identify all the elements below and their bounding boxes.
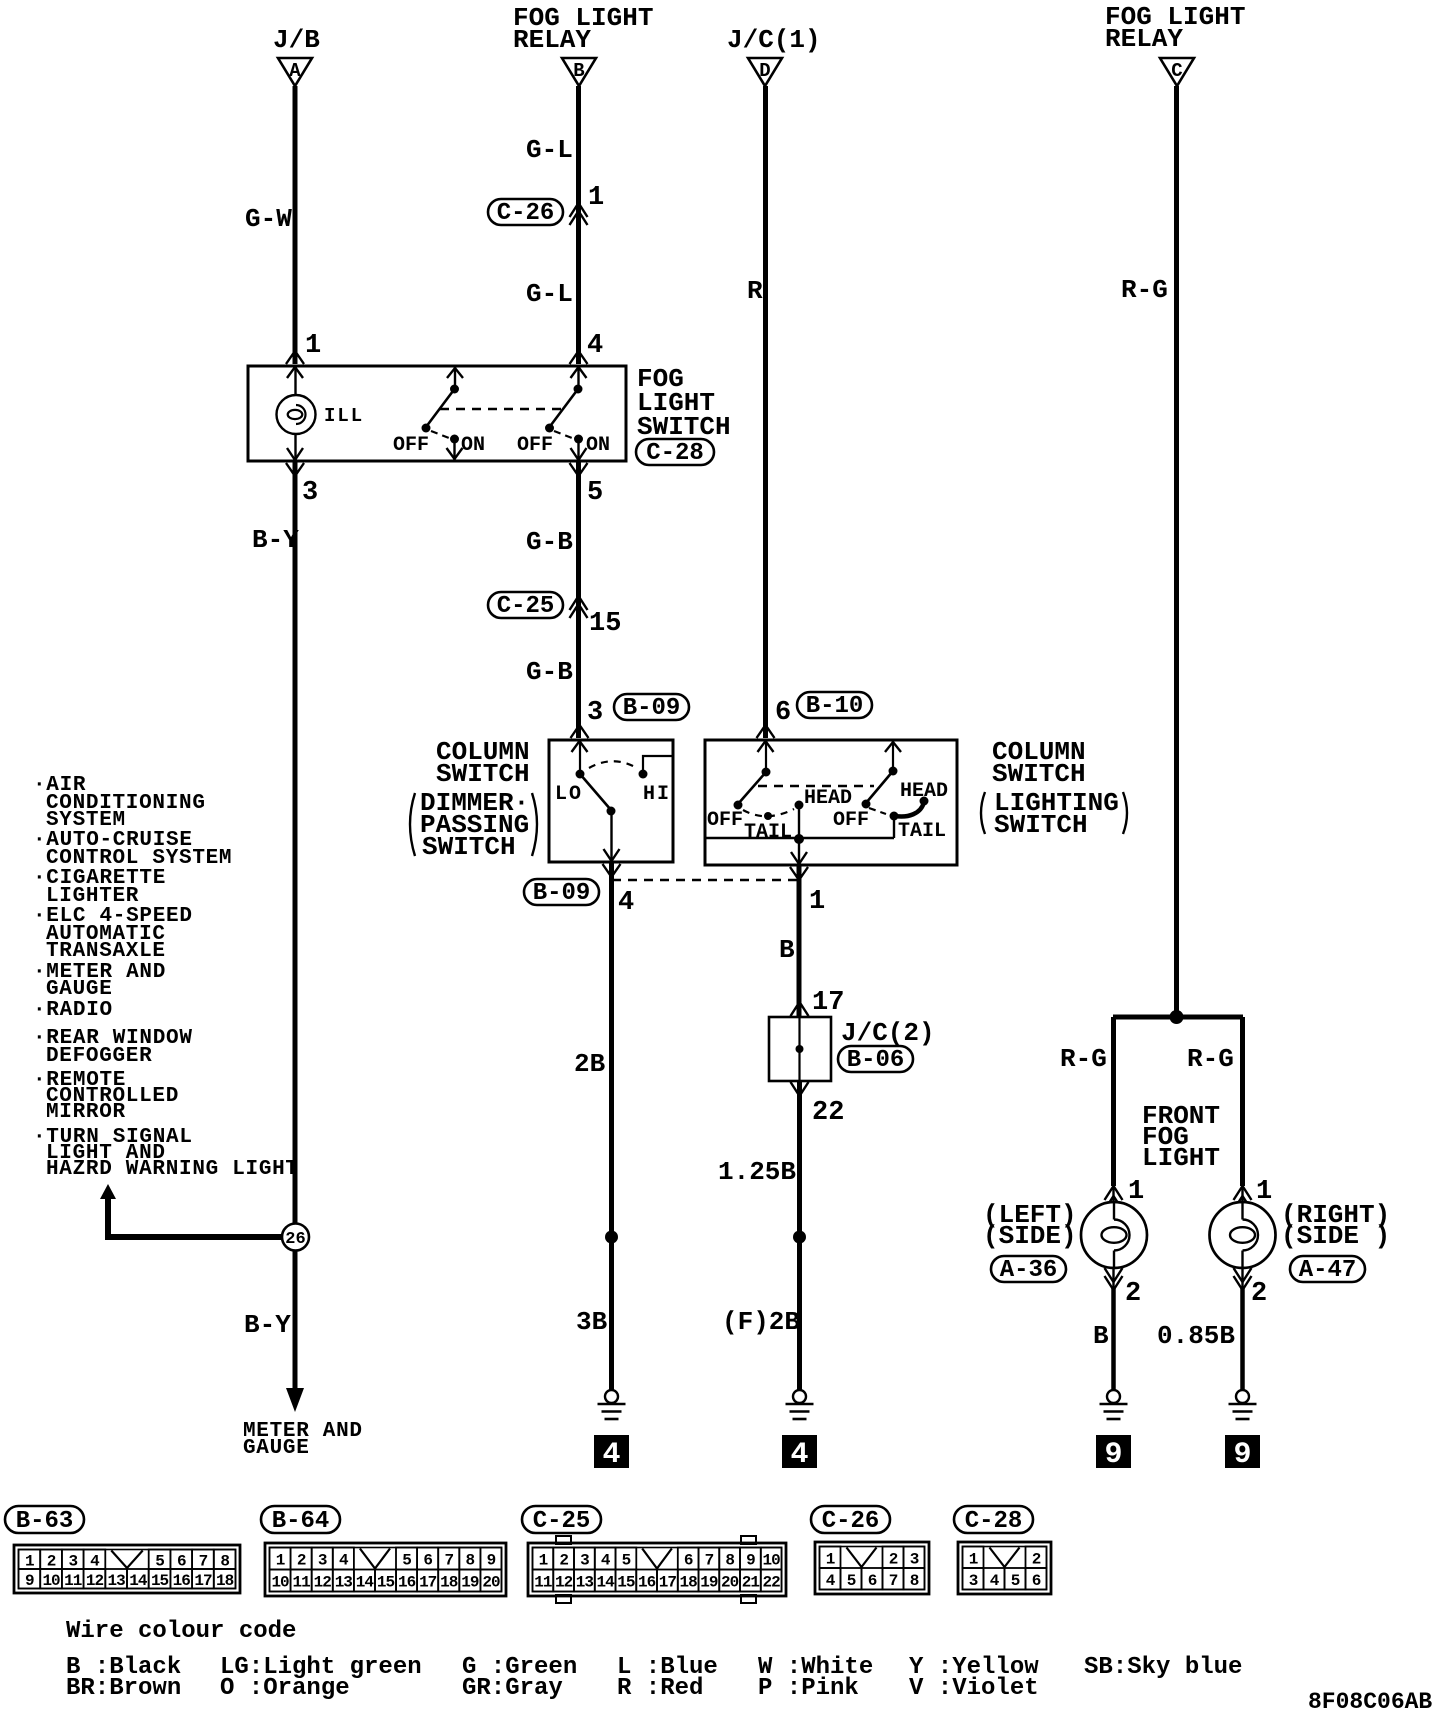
svg-text:6: 6 xyxy=(868,1572,877,1590)
wire B: relay feed down to fog light switch pin 4 xyxy=(576,86,581,364)
connector view C-25 xyxy=(522,1506,601,1533)
svg-text:8: 8 xyxy=(910,1572,919,1590)
svg-text:10: 10 xyxy=(271,1574,289,1592)
svg-text:4: 4 xyxy=(601,1552,611,1570)
svg-text:B: B xyxy=(1093,1321,1109,1351)
svg-text:13: 13 xyxy=(335,1574,353,1592)
svg-text:5: 5 xyxy=(402,1552,411,1570)
svg-text:C: C xyxy=(1171,60,1182,82)
lighting TAIL dot (pole 2) xyxy=(890,812,899,821)
svg-text:B: B xyxy=(779,935,795,965)
svg-text:Wire colour code: Wire colour code xyxy=(66,1618,296,1645)
svg-text:B: B xyxy=(573,60,584,82)
svg-text:2: 2 xyxy=(297,1552,306,1570)
svg-text:15: 15 xyxy=(589,609,621,639)
wire A: B-Y from switch pin 3 to junction 26 xyxy=(293,461,298,1392)
column switch lighting box xyxy=(705,740,957,865)
pin 1 chevrons (left fog light) xyxy=(1105,1186,1123,1200)
lighting pole 2 pivot dot xyxy=(889,767,898,776)
ILL lamp wire inside switch (pin1 to pin3) xyxy=(294,366,296,405)
svg-text:HEAD: HEAD xyxy=(804,787,852,810)
connector chevrons at dimmer switch pin 4 xyxy=(604,849,620,861)
fog switch pole 1 ON stub to box bottom xyxy=(453,439,455,460)
svg-text:4: 4 xyxy=(826,1572,836,1590)
svg-text:OFF: OFF xyxy=(517,434,553,457)
svg-text:14: 14 xyxy=(129,1572,148,1590)
svg-text:9: 9 xyxy=(487,1552,496,1570)
lighting HEAD contact dot (pole 1) xyxy=(795,801,804,810)
dimmer dashed travel arc xyxy=(589,761,635,768)
svg-text:9: 9 xyxy=(1104,1438,1122,1472)
svg-text:B-06: B-06 xyxy=(847,1047,905,1074)
svg-text:(F)2B: (F)2B xyxy=(722,1307,800,1337)
ground reference square 9 (right) xyxy=(1225,1435,1260,1468)
svg-text:8: 8 xyxy=(220,1552,229,1570)
svg-text:(SIDE): (SIDE) xyxy=(983,1221,1077,1251)
connector chevrons at lighting switch pin 1 xyxy=(791,852,807,864)
connector view C-28 xyxy=(954,1506,1033,1533)
svg-text:11: 11 xyxy=(64,1572,82,1590)
wire B: G-B from switch pin 5 to column switch xyxy=(576,461,581,738)
svg-text:OFF: OFF xyxy=(833,809,869,832)
svg-text:BR:Brown: BR:Brown xyxy=(66,1675,181,1702)
fog switch pole 2 OFF contact dot xyxy=(545,424,554,433)
fog switch pole 1 (illumination) stub xyxy=(454,366,456,387)
splice dot on 2B wire xyxy=(605,1231,618,1244)
svg-text:C-25: C-25 xyxy=(533,1508,591,1535)
svg-text:·RADIO: ·RADIO xyxy=(33,999,113,1022)
left fog light drop wire xyxy=(1111,1017,1116,1186)
connector view C-26 xyxy=(811,1506,890,1533)
splice dot on 1.25B wire xyxy=(793,1231,806,1244)
lighting pole 2 HEAD-TAIL bold arc xyxy=(895,802,924,816)
svg-text:16: 16 xyxy=(638,1574,656,1592)
fog light feed horizontal wire xyxy=(1113,1015,1243,1020)
svg-text:11: 11 xyxy=(534,1574,552,1592)
svg-text:1: 1 xyxy=(826,1550,835,1568)
svg-text:6: 6 xyxy=(423,1552,432,1570)
svg-text:2: 2 xyxy=(889,1550,898,1568)
svg-text:18: 18 xyxy=(216,1572,234,1590)
svg-text:16: 16 xyxy=(173,1572,191,1590)
branch stub wire xyxy=(105,1197,111,1234)
svg-text:A: A xyxy=(289,60,301,82)
ground symbol (left fog light) xyxy=(1107,1390,1120,1403)
svg-text:3: 3 xyxy=(587,698,603,728)
fog switch pole 2 ON contact dot xyxy=(574,435,583,444)
left fog lamp lower thin lead xyxy=(1112,1268,1114,1290)
lighting inner bus xyxy=(705,837,894,839)
fog switch pole 1 arm xyxy=(426,389,455,427)
svg-text:C-26: C-26 xyxy=(497,200,555,227)
lighting HEAD dot (pole 2) xyxy=(920,797,929,806)
svg-text:2B: 2B xyxy=(574,1049,606,1079)
svg-text:19: 19 xyxy=(700,1574,718,1592)
svg-text:OFF: OFF xyxy=(707,809,743,832)
svg-text:4: 4 xyxy=(90,1552,100,1570)
fog switch pole 1 dashed travel xyxy=(431,431,449,438)
svg-text:J/B: J/B xyxy=(273,25,320,55)
svg-text:26: 26 xyxy=(285,1230,305,1249)
ground symbol (lighting circuit) xyxy=(793,1390,806,1403)
svg-text:1: 1 xyxy=(539,1552,548,1570)
svg-text:20: 20 xyxy=(721,1574,739,1592)
svg-text:21: 21 xyxy=(742,1574,760,1592)
svg-text:HAZRD WARNING LIGHT: HAZRD WARNING LIGHT xyxy=(46,1158,299,1181)
svg-text:14: 14 xyxy=(356,1574,375,1592)
svg-text:12: 12 xyxy=(86,1572,104,1590)
svg-text:C-28: C-28 xyxy=(646,440,704,467)
svg-text:G-W: G-W xyxy=(245,204,292,234)
connector view B-64 xyxy=(261,1506,340,1533)
wire D: J/C(1) feed down to lighting switch pin 6 xyxy=(763,86,768,738)
connector triangle C xyxy=(1160,58,1194,86)
svg-text:11: 11 xyxy=(293,1574,311,1592)
svg-text:R-G: R-G xyxy=(1121,275,1168,305)
lighting pole 1 arm end dot xyxy=(734,801,743,810)
connector view B-63 xyxy=(5,1506,84,1533)
left front fog light lamp A-36 xyxy=(1081,1202,1147,1268)
svg-text:4: 4 xyxy=(602,1438,620,1472)
svg-text:GAUGE: GAUGE xyxy=(243,1437,310,1460)
svg-text:D: D xyxy=(759,60,770,82)
svg-text:5: 5 xyxy=(1011,1572,1020,1590)
svg-text:10: 10 xyxy=(42,1572,60,1590)
svg-text:1: 1 xyxy=(809,887,825,917)
svg-text:3B: 3B xyxy=(576,1307,608,1337)
J/C(2) internal wire xyxy=(798,1017,800,1081)
pin 1 chevrons (right fog light) xyxy=(1234,1186,1252,1200)
svg-text:P :Pink: P :Pink xyxy=(758,1675,859,1702)
connector chevrons at dimmer switch pin 3 xyxy=(571,725,589,738)
svg-text:ILL: ILL xyxy=(324,405,364,427)
capsule B-09 (dimmer switch connector, bottom) xyxy=(524,879,599,905)
svg-text:9: 9 xyxy=(746,1552,755,1570)
svg-text:R: R xyxy=(747,276,763,306)
left fog light ground wire xyxy=(1111,1288,1116,1390)
J/C(2) internal junction dot xyxy=(796,1045,804,1053)
svg-text:LO: LO xyxy=(555,783,583,806)
svg-text:HEAD: HEAD xyxy=(900,780,948,803)
pin 2 chevrons (left fog light) xyxy=(1105,1268,1123,1282)
junction block J/C(2) box xyxy=(769,1017,831,1081)
svg-text:4: 4 xyxy=(790,1438,808,1472)
svg-text:J/C(1): J/C(1) xyxy=(727,25,821,55)
dimmer HI contact lead xyxy=(643,756,672,770)
svg-text:G-L: G-L xyxy=(526,279,573,309)
svg-text:V :Violet: V :Violet xyxy=(909,1675,1039,1702)
svg-text:GR:Gray: GR:Gray xyxy=(462,1675,563,1702)
connector chevrons at fog light switch pin 5 xyxy=(571,448,587,460)
connector triangle A xyxy=(278,58,312,86)
lighting pole 1 dashed travel arc xyxy=(743,809,794,816)
ground symbol (right fog light) xyxy=(1236,1390,1249,1403)
svg-text:9: 9 xyxy=(25,1572,34,1590)
svg-text:1: 1 xyxy=(1128,1177,1144,1207)
svg-text:22: 22 xyxy=(763,1574,781,1592)
capsule B-06 (junction connector) xyxy=(838,1046,913,1072)
dimmer input stub xyxy=(579,740,581,770)
fog switch pole 2 dashed travel xyxy=(554,431,572,438)
lighting pole 1 input stub xyxy=(765,740,767,768)
svg-text:3: 3 xyxy=(580,1552,589,1570)
lighting pole 2 arm xyxy=(866,771,893,803)
svg-text:5: 5 xyxy=(587,478,603,508)
svg-text:15: 15 xyxy=(377,1574,395,1592)
svg-text:2: 2 xyxy=(1125,1279,1141,1309)
svg-text:B-63: B-63 xyxy=(16,1508,74,1535)
ground reference square 9 (left) xyxy=(1096,1435,1131,1468)
ground reference square 4 (left) xyxy=(594,1435,629,1468)
svg-text:1: 1 xyxy=(305,331,321,361)
svg-text:5: 5 xyxy=(847,1572,856,1590)
svg-text:B-09: B-09 xyxy=(533,880,591,907)
lighting output junction dot xyxy=(794,834,804,844)
svg-text:1: 1 xyxy=(588,183,604,213)
svg-text:16: 16 xyxy=(398,1574,416,1592)
svg-text:19: 19 xyxy=(461,1574,479,1592)
fog switch pole 1 pivot dot xyxy=(450,385,459,394)
svg-text:22: 22 xyxy=(812,1098,844,1128)
svg-text:14: 14 xyxy=(597,1574,616,1592)
svg-text:7: 7 xyxy=(199,1552,208,1570)
connector chevrons at fog light switch pin 4 xyxy=(570,351,588,364)
svg-text:2: 2 xyxy=(1032,1550,1041,1568)
arrowhead to METER AND GAUGE xyxy=(286,1388,304,1412)
svg-text:RELAY: RELAY xyxy=(1105,24,1183,54)
svg-text:4: 4 xyxy=(618,888,634,918)
fog switch pole 2 pivot dot xyxy=(574,385,583,394)
lighting output stub xyxy=(798,839,800,865)
svg-text:C-28: C-28 xyxy=(965,1508,1023,1535)
svg-text:4: 4 xyxy=(587,331,603,361)
ganged dashed link between column switch outputs xyxy=(612,879,799,881)
svg-text:TAIL: TAIL xyxy=(898,820,946,843)
svg-text:3: 3 xyxy=(910,1550,919,1568)
lighting pole 1 pivot dot xyxy=(762,768,771,777)
svg-text:SWITCH: SWITCH xyxy=(992,759,1086,789)
lighting pole 1 arm xyxy=(738,772,766,804)
svg-text:A-36: A-36 xyxy=(1000,1257,1058,1284)
connector chevrons at fog light switch pin 1 xyxy=(286,351,304,364)
wire A: J/B feed down to fog light switch pin 1 xyxy=(293,86,298,364)
svg-text:7: 7 xyxy=(444,1552,453,1570)
fog switch pole 1 ON contact dot xyxy=(450,435,459,444)
lighting pole 2 input stub xyxy=(892,740,894,767)
connector chevron at J/C(2) pin 22 xyxy=(791,1082,809,1096)
capsule C-26 (harness connector) xyxy=(488,199,563,225)
svg-text:R-G: R-G xyxy=(1187,1044,1234,1074)
dimmer output stub xyxy=(610,811,612,862)
svg-text:18: 18 xyxy=(440,1574,458,1592)
right fog light ground wire xyxy=(1240,1288,1245,1390)
svg-text:6: 6 xyxy=(684,1552,693,1570)
dimmer LO contact dot xyxy=(576,770,585,779)
lighting HEAD contact lead xyxy=(798,805,800,838)
right fog light drop wire xyxy=(1240,1017,1245,1186)
connector triangle B xyxy=(562,58,596,86)
lighting pole 2 dashed travel xyxy=(869,808,886,814)
svg-text:SWITCH: SWITCH xyxy=(436,759,530,789)
fog switch pole 1 OFF contact dot xyxy=(422,424,431,433)
svg-text:ON: ON xyxy=(461,434,485,457)
wire 2B: dimmer output to ground xyxy=(609,862,614,1390)
svg-text:ON: ON xyxy=(586,434,610,457)
svg-text:2: 2 xyxy=(47,1552,56,1570)
column switch dimmer box xyxy=(549,740,673,862)
svg-text:7: 7 xyxy=(705,1552,714,1570)
svg-text:HI: HI xyxy=(643,783,671,806)
right fog lamp lower thin lead xyxy=(1241,1268,1243,1290)
connector chevron at J/C(2) pin 17 xyxy=(791,1002,809,1016)
svg-text:GAUGE: GAUGE xyxy=(46,978,113,1001)
fog switch pole 2 arm xyxy=(550,389,579,427)
svg-text:4: 4 xyxy=(339,1552,349,1570)
wire C: relay feed down to fog lights xyxy=(1174,86,1179,1017)
lighting TAIL lead down xyxy=(893,816,895,838)
svg-text:1: 1 xyxy=(1256,1177,1272,1207)
junction 26 circle xyxy=(282,1224,309,1251)
ganged switch dashed link xyxy=(440,408,562,410)
capsule C-28 (switch connector) xyxy=(636,439,714,465)
svg-text:C-25: C-25 xyxy=(497,593,555,620)
connector triangle D xyxy=(748,58,782,86)
branch arrow to system list xyxy=(100,1184,116,1199)
svg-text:20: 20 xyxy=(482,1574,500,1592)
svg-text:17: 17 xyxy=(812,988,844,1018)
svg-text:SB:Sky blue: SB:Sky blue xyxy=(1084,1654,1242,1681)
pin 2 chevrons (right fog light) xyxy=(1234,1268,1252,1282)
svg-text:17: 17 xyxy=(659,1574,677,1592)
svg-text:8F08C06AB: 8F08C06AB xyxy=(1308,1689,1432,1715)
svg-text:6: 6 xyxy=(775,698,791,728)
svg-text:G-B: G-B xyxy=(526,657,573,687)
svg-text:10: 10 xyxy=(763,1552,781,1570)
svg-text:G-B: G-B xyxy=(526,527,573,557)
capsule A-36 xyxy=(991,1256,1066,1282)
svg-text:B-Y: B-Y xyxy=(244,1310,291,1340)
wire 1.25B: J/C(2) to ground xyxy=(797,1081,802,1390)
fog switch pole 2 ON stub xyxy=(577,439,579,461)
svg-text:12: 12 xyxy=(314,1574,332,1592)
ILL illumination lamp xyxy=(277,395,316,434)
connector C-26 crossing chevrons xyxy=(570,203,588,217)
svg-text:7: 7 xyxy=(889,1572,898,1590)
svg-text:15: 15 xyxy=(151,1572,169,1590)
svg-text:9: 9 xyxy=(1233,1438,1251,1472)
svg-text:B-64: B-64 xyxy=(272,1508,330,1535)
capsule A-47 xyxy=(1290,1256,1365,1282)
svg-text:TRANSAXLE: TRANSAXLE xyxy=(46,940,166,963)
svg-text:17: 17 xyxy=(419,1574,437,1592)
dimmer switch arm xyxy=(580,774,611,810)
lighting pole 2 arm end dot xyxy=(862,800,871,809)
connector chevrons at lighting switch pin 6 xyxy=(757,725,775,738)
branch bus wire to junction 26 xyxy=(105,1234,284,1240)
svg-text:3: 3 xyxy=(68,1552,77,1570)
capsule B-10 (lighting switch connector) xyxy=(797,692,872,718)
svg-text:R :Red: R :Red xyxy=(617,1675,703,1702)
svg-text:1.25B: 1.25B xyxy=(718,1157,796,1187)
capsule B-09 (dimmer switch connector, top) xyxy=(614,694,689,720)
svg-text:TAIL: TAIL xyxy=(744,821,792,844)
svg-text:1: 1 xyxy=(25,1552,34,1570)
connector C-25 crossing chevrons xyxy=(570,596,588,610)
svg-text:1: 1 xyxy=(969,1550,978,1568)
svg-text:8: 8 xyxy=(466,1552,475,1570)
dimmer arm output dot xyxy=(607,807,616,816)
svg-text:LIGHT: LIGHT xyxy=(1142,1143,1220,1173)
svg-text:1: 1 xyxy=(276,1552,285,1570)
svg-text:12: 12 xyxy=(555,1574,573,1592)
svg-text:13: 13 xyxy=(108,1572,126,1590)
ground symbol (dimmer circuit) xyxy=(605,1390,618,1403)
svg-text:SWITCH: SWITCH xyxy=(422,832,516,862)
svg-text:SWITCH: SWITCH xyxy=(637,412,731,442)
lighting TAIL contact dot (pole 1) xyxy=(764,812,772,820)
svg-text:6: 6 xyxy=(177,1552,186,1570)
svg-text:MIRROR: MIRROR xyxy=(46,1101,126,1124)
svg-text:B-Y: B-Y xyxy=(252,525,299,555)
wire B(black): lighting output to J/C(2) xyxy=(797,865,802,1017)
svg-text:6: 6 xyxy=(1032,1572,1041,1590)
svg-text:4: 4 xyxy=(990,1572,1000,1590)
svg-text:RELAY: RELAY xyxy=(513,25,591,55)
svg-text:(SIDE ): (SIDE ) xyxy=(1281,1221,1390,1251)
svg-text:3: 3 xyxy=(969,1572,978,1590)
connector chevrons at fog light switch pin 3 xyxy=(287,448,303,460)
svg-text:13: 13 xyxy=(576,1574,594,1592)
svg-text:0.85B: 0.85B xyxy=(1157,1321,1235,1351)
fog light switch box C-28 xyxy=(248,366,626,461)
svg-text:O :Orange: O :Orange xyxy=(220,1675,350,1702)
svg-text:3: 3 xyxy=(318,1552,327,1570)
svg-text:A-47: A-47 xyxy=(1299,1257,1357,1284)
dimmer HI contact dot xyxy=(639,770,648,779)
svg-text:B-09: B-09 xyxy=(623,695,681,722)
fog switch pole 2 stub xyxy=(577,366,579,387)
svg-text:5: 5 xyxy=(155,1552,164,1570)
svg-text:R-G: R-G xyxy=(1060,1044,1107,1074)
ground reference square 4 (right) xyxy=(782,1435,817,1468)
svg-text:G-L: G-L xyxy=(526,135,573,165)
svg-text:OFF: OFF xyxy=(393,434,429,457)
fog light feed junction dot xyxy=(1170,1010,1184,1024)
svg-text:B-10: B-10 xyxy=(806,693,864,720)
right front fog light lamp A-47 xyxy=(1210,1202,1276,1268)
svg-text:8: 8 xyxy=(725,1552,734,1570)
ganged dashed link between lighting poles xyxy=(758,785,874,787)
svg-text:J/C(2): J/C(2) xyxy=(841,1018,935,1048)
svg-text:5: 5 xyxy=(622,1552,631,1570)
svg-text:17: 17 xyxy=(194,1572,212,1590)
capsule C-25 (harness connector) xyxy=(488,592,563,618)
svg-text:3: 3 xyxy=(302,478,318,508)
svg-text:SWITCH: SWITCH xyxy=(994,810,1088,840)
svg-text:18: 18 xyxy=(680,1574,698,1592)
svg-text:2: 2 xyxy=(1251,1279,1267,1309)
svg-text:DEFOGGER: DEFOGGER xyxy=(46,1045,152,1068)
svg-text:15: 15 xyxy=(617,1574,635,1592)
svg-text:C-26: C-26 xyxy=(822,1508,880,1535)
svg-text:2: 2 xyxy=(559,1552,568,1570)
